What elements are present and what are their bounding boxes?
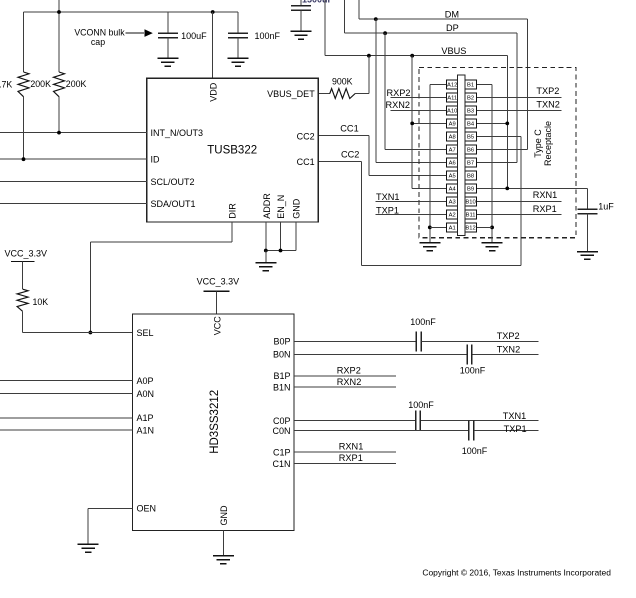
svg-text:VCC_3.3V: VCC_3.3V [5, 248, 48, 258]
wire top VCONN rail [24, 11, 239, 13]
svg-text:RXN1: RXN1 [533, 190, 558, 200]
wire VDD stem to U1 [212, 12, 214, 78]
wire B12 to ground drop [477, 226, 493, 228]
pin A10 [446, 106, 458, 115]
node VBUS/A9 junction [410, 122, 414, 126]
pin B8 [465, 171, 476, 180]
node INT/R3 junction [57, 131, 61, 135]
node VBUS/B9 junction [505, 187, 509, 191]
svg-text:VCC: VCC [212, 316, 222, 336]
node EN_N junction [279, 249, 283, 253]
wire C5 to TXN2 [473, 353, 539, 355]
ground for C2 [228, 57, 249, 59]
wire EN_N pulldown [280, 222, 282, 250]
svg-text:B11: B11 [466, 213, 476, 219]
ground for B-side [482, 242, 503, 244]
node ID/R2 junction [22, 157, 26, 161]
svg-text:200K: 200K [66, 79, 87, 89]
node VDD tap junction [211, 10, 215, 14]
pin B4 [465, 119, 476, 128]
svg-text:CC2: CC2 [341, 149, 359, 159]
svg-text:Type C: Type C [533, 129, 543, 158]
wire RXP2 stub to A11 [390, 96, 446, 98]
svg-text:VBUS: VBUS [441, 46, 466, 56]
svg-text:RXN1: RXN1 [339, 442, 364, 452]
pin A3 [446, 197, 458, 206]
svg-text:DIR: DIR [227, 203, 237, 219]
wire ID line [0, 158, 147, 160]
pin B10 [465, 197, 476, 206]
wire OEN to ground [88, 507, 132, 509]
pin A9 [446, 119, 458, 128]
svg-text:A10: A10 [447, 109, 457, 115]
wire GND pulldown [295, 222, 297, 250]
ground for OEN [78, 543, 99, 545]
svg-text:B2: B2 [467, 96, 474, 102]
svg-text:OEN: OEN [137, 504, 157, 514]
wire VBUS drop to A9 and A4 [411, 56, 413, 189]
wire DM drop to B6 [526, 19, 528, 149]
ground for C3 [291, 30, 312, 32]
svg-text:B7: B7 [467, 161, 474, 167]
net VBUS horizontal rail [324, 0, 326, 56]
pin A4 [446, 184, 458, 193]
svg-text:A6: A6 [449, 161, 456, 167]
svg-text:RXN2: RXN2 [386, 100, 411, 110]
wire R3 bottom to INT line [58, 97, 60, 133]
svg-text:CC1: CC1 [297, 157, 315, 167]
svg-text:TXN2: TXN2 [536, 100, 560, 110]
wire TXN2 stub from B3 [477, 109, 562, 111]
svg-text:B0N: B0N [273, 350, 291, 360]
node A1 junction [428, 226, 432, 230]
wire VBUS drop to B4 and B9 [506, 56, 508, 189]
svg-text:SDA/OUT1: SDA/OUT1 [151, 199, 196, 209]
op-amp U2 HD3SS3212 body [133, 314, 295, 531]
wire C1P stub RXN1 [294, 451, 396, 453]
svg-text:TXP2: TXP2 [536, 86, 559, 96]
resistor R4 900K [330, 89, 355, 99]
wire TXN1 stub to A3 [375, 200, 446, 202]
pin B3 [465, 106, 476, 115]
pin B11 [465, 210, 476, 219]
ground for A-side [419, 242, 440, 244]
svg-text:cap: cap [91, 37, 105, 47]
pin A2 [446, 210, 458, 219]
wire DIR to SEL [231, 222, 233, 242]
wire RXP1 stub from B11 [477, 213, 562, 215]
wire C1N stub RXP1 [294, 462, 396, 464]
pin A7 [446, 145, 458, 154]
svg-text:B9: B9 [467, 187, 474, 193]
capacitor C4 100nF [415, 331, 417, 351]
svg-text:A1P: A1P [137, 413, 154, 423]
wire C7 to TXP1 [474, 430, 538, 432]
pin B1 [465, 80, 476, 89]
svg-text:A0P: A0P [137, 376, 154, 386]
pin A12 [446, 80, 458, 89]
wire B9 to 1uF [586, 188, 588, 209]
svg-text:TXN2: TXN2 [497, 345, 521, 355]
pin B6 [465, 145, 476, 154]
pin A11 [446, 93, 458, 102]
svg-text:100uF: 100uF [181, 31, 207, 41]
ground for C8 [577, 251, 598, 253]
svg-text:A11: A11 [447, 96, 457, 102]
svg-text:TUSB322: TUSB322 [207, 144, 257, 156]
svg-text:VBUS_DET: VBUS_DET [267, 89, 315, 99]
resistor R2 200K [18, 72, 29, 97]
wire C6 to TXN1 [421, 420, 539, 422]
wire DM drop to A6 [375, 19, 377, 162]
svg-text:A1N: A1N [137, 425, 155, 435]
svg-text:INT_N/OUT3: INT_N/OUT3 [151, 128, 204, 138]
capacitor C1 100uF [167, 12, 169, 33]
svg-text:A1: A1 [449, 226, 456, 232]
svg-text:RXP2: RXP2 [387, 88, 411, 98]
svg-text:100nF: 100nF [410, 317, 436, 327]
svg-text:EN_N: EN_N [276, 195, 286, 219]
svg-text:GND: GND [292, 198, 302, 219]
svg-text:RXP1: RXP1 [339, 453, 363, 463]
wire C4 to TXP2 [422, 340, 539, 342]
svg-text:A4: A4 [449, 187, 457, 193]
node VBUS/B4 junction [505, 122, 509, 126]
wire A0N line [0, 393, 133, 395]
wire DP drop to A7 [384, 33, 386, 149]
wire B1N stub RXN2 [294, 386, 396, 388]
svg-text:10K: 10K [33, 297, 49, 307]
wire TXP2 stub from B2 [477, 96, 562, 98]
pin A8 [446, 132, 458, 141]
node VBUS junction 2 [410, 54, 414, 58]
svg-text:DM: DM [445, 9, 459, 19]
svg-text:100nF: 100nF [462, 446, 488, 456]
wire A0P line [0, 379, 133, 381]
svg-text:B3: B3 [467, 109, 474, 115]
svg-text:TXP1: TXP1 [376, 205, 399, 215]
resistor R5 10K [17, 289, 28, 311]
node ADDR junction [264, 249, 268, 253]
wire RXN2 stub to A10 [390, 109, 446, 111]
svg-text:TXN1: TXN1 [376, 192, 400, 202]
svg-text:C1P: C1P [273, 448, 291, 458]
wire B0N to cap C5 [294, 353, 467, 355]
svg-text:ADDR: ADDR [262, 193, 272, 219]
svg-text:Copyright © 2016, Texas Instru: Copyright © 2016, Texas Instruments Inco… [422, 568, 611, 578]
node B12 junction [490, 226, 494, 230]
op-amp U1 TUSB322 body [147, 78, 318, 222]
wire ADDR pulldown [265, 222, 267, 250]
wire rail corner down to R2 [23, 12, 25, 72]
node junction rail/R3 [57, 10, 61, 14]
svg-text:B1N: B1N [273, 382, 291, 392]
capacitor C2 100nF [237, 12, 239, 33]
wire A1P line [0, 417, 133, 419]
svg-text:C1N: C1N [272, 459, 290, 469]
svg-text:TXP2: TXP2 [497, 331, 520, 341]
svg-text:900K: 900K [332, 76, 353, 86]
pin B5 [465, 132, 476, 141]
wire B1 to ground drop [477, 83, 493, 85]
pin B2 [465, 93, 476, 102]
svg-text:B10: B10 [465, 200, 475, 206]
wire R2 bottom to ID line [23, 97, 25, 160]
net CC1 from U1 CC2 pin to A5 [318, 135, 369, 137]
svg-text:SEL: SEL [137, 328, 154, 338]
svg-text:CC2: CC2 [297, 132, 315, 142]
wire B9 row to 1uF cap [477, 187, 588, 189]
svg-text:RXN2: RXN2 [337, 377, 362, 387]
pin A1 [446, 223, 458, 232]
svg-text:A5: A5 [449, 174, 456, 180]
resistor R3 200K [54, 72, 65, 97]
capacitor C7 100nF [468, 421, 470, 441]
svg-text:TXP1: TXP1 [504, 424, 527, 434]
svg-text:VDD: VDD [208, 82, 218, 102]
svg-text:B0P: B0P [273, 337, 290, 347]
svg-text:A0N: A0N [137, 389, 155, 399]
svg-text:B1: B1 [467, 83, 474, 89]
svg-text:Receptacle: Receptacle [543, 121, 553, 166]
node DP junction [383, 31, 387, 35]
svg-text:B4: B4 [467, 122, 475, 128]
capacitor C6 100nF [415, 411, 417, 431]
wire DP drop to B7 [516, 33, 518, 162]
svg-text:SCL/OUT2: SCL/OUT2 [151, 177, 195, 187]
wire A1N line [0, 429, 133, 431]
svg-text:C0P: C0P [273, 416, 291, 426]
wire SDA/OUT1 line [0, 203, 147, 205]
svg-text:A2: A2 [449, 213, 456, 219]
svg-text:A3: A3 [449, 200, 456, 206]
wire VBUS_DET pin to 900K [318, 93, 330, 95]
wire A1 to ground drop [430, 226, 447, 228]
svg-text:ID: ID [151, 155, 161, 165]
wire RXN1 stub from B10 [477, 200, 562, 202]
wire stem to ground [265, 251, 267, 263]
wire R5 to SEL [22, 311, 24, 332]
svg-text:B12: B12 [465, 226, 475, 232]
ground for C1 [157, 57, 178, 59]
wire from top edge into rail at x59 [58, 0, 60, 72]
ground for U2 [213, 555, 234, 557]
svg-text:B1P: B1P [273, 371, 290, 381]
svg-text:RXP2: RXP2 [337, 366, 361, 376]
wire A12 to ground drop [430, 83, 447, 85]
svg-text:100nF: 100nF [460, 365, 486, 375]
svg-text:4.7K: 4.7K [0, 80, 12, 90]
ground for U1 control pins [255, 262, 276, 264]
svg-text:DP: DP [446, 23, 459, 33]
svg-text:A8: A8 [449, 135, 456, 141]
wire pulldown bus [266, 250, 296, 252]
svg-text:200K: 200K [30, 79, 51, 89]
wire C0P to cap C6 [294, 420, 415, 422]
node VBUS junction 1 [367, 54, 371, 58]
svg-text:CC1: CC1 [340, 124, 358, 134]
capacitor C5 100nF [466, 344, 468, 364]
wire C0N to cap C7 [294, 430, 468, 432]
wire INT_N/OUT3 line [0, 132, 147, 134]
pin B12 [465, 223, 476, 232]
svg-text:RXP1: RXP1 [533, 204, 557, 214]
wire 900K to VBUS rail [355, 93, 369, 95]
svg-text:B5: B5 [467, 135, 474, 141]
pin A5 [446, 171, 458, 180]
svg-text:1uF: 1uF [598, 202, 614, 212]
wire U2 GND pin [222, 531, 224, 556]
net CC2 from U1 CC1 pin to B5 (U route) [318, 161, 361, 163]
wire SCL/OUT2 line [0, 181, 147, 183]
net DM horizontal rail [358, 0, 360, 19]
wire TXP1 stub to A2 [375, 213, 446, 215]
svg-text:GND: GND [219, 505, 229, 526]
pin B7 [465, 158, 476, 167]
svg-text:B6: B6 [467, 148, 474, 154]
svg-text:TXN1: TXN1 [503, 411, 527, 421]
wire B1P stub RXP2 [294, 375, 396, 377]
svg-text:C0N: C0N [272, 426, 290, 436]
capacitor C8 1uF [577, 208, 597, 210]
svg-text:A7: A7 [449, 148, 456, 154]
dashed boundary Type C receptacle [419, 67, 576, 237]
node DIR/SEL junction [89, 331, 93, 335]
svg-text:100nF: 100nF [255, 31, 281, 41]
net DP horizontal rail [344, 0, 346, 33]
svg-text:VCC_3.3V: VCC_3.3V [197, 277, 240, 287]
svg-text:HD3SS3212: HD3SS3212 [209, 390, 221, 454]
wire B0P to cap C4 [294, 340, 416, 342]
svg-text:A12: A12 [447, 83, 457, 89]
svg-text:1500uF: 1500uF [302, 0, 334, 5]
svg-text:A9: A9 [449, 122, 456, 128]
svg-text:B8: B8 [467, 174, 474, 180]
pin B9 [465, 184, 476, 193]
svg-text:100nF: 100nF [408, 400, 434, 410]
node DM junction [374, 17, 378, 21]
connector center body [458, 75, 465, 235]
pin A6 [446, 158, 458, 167]
